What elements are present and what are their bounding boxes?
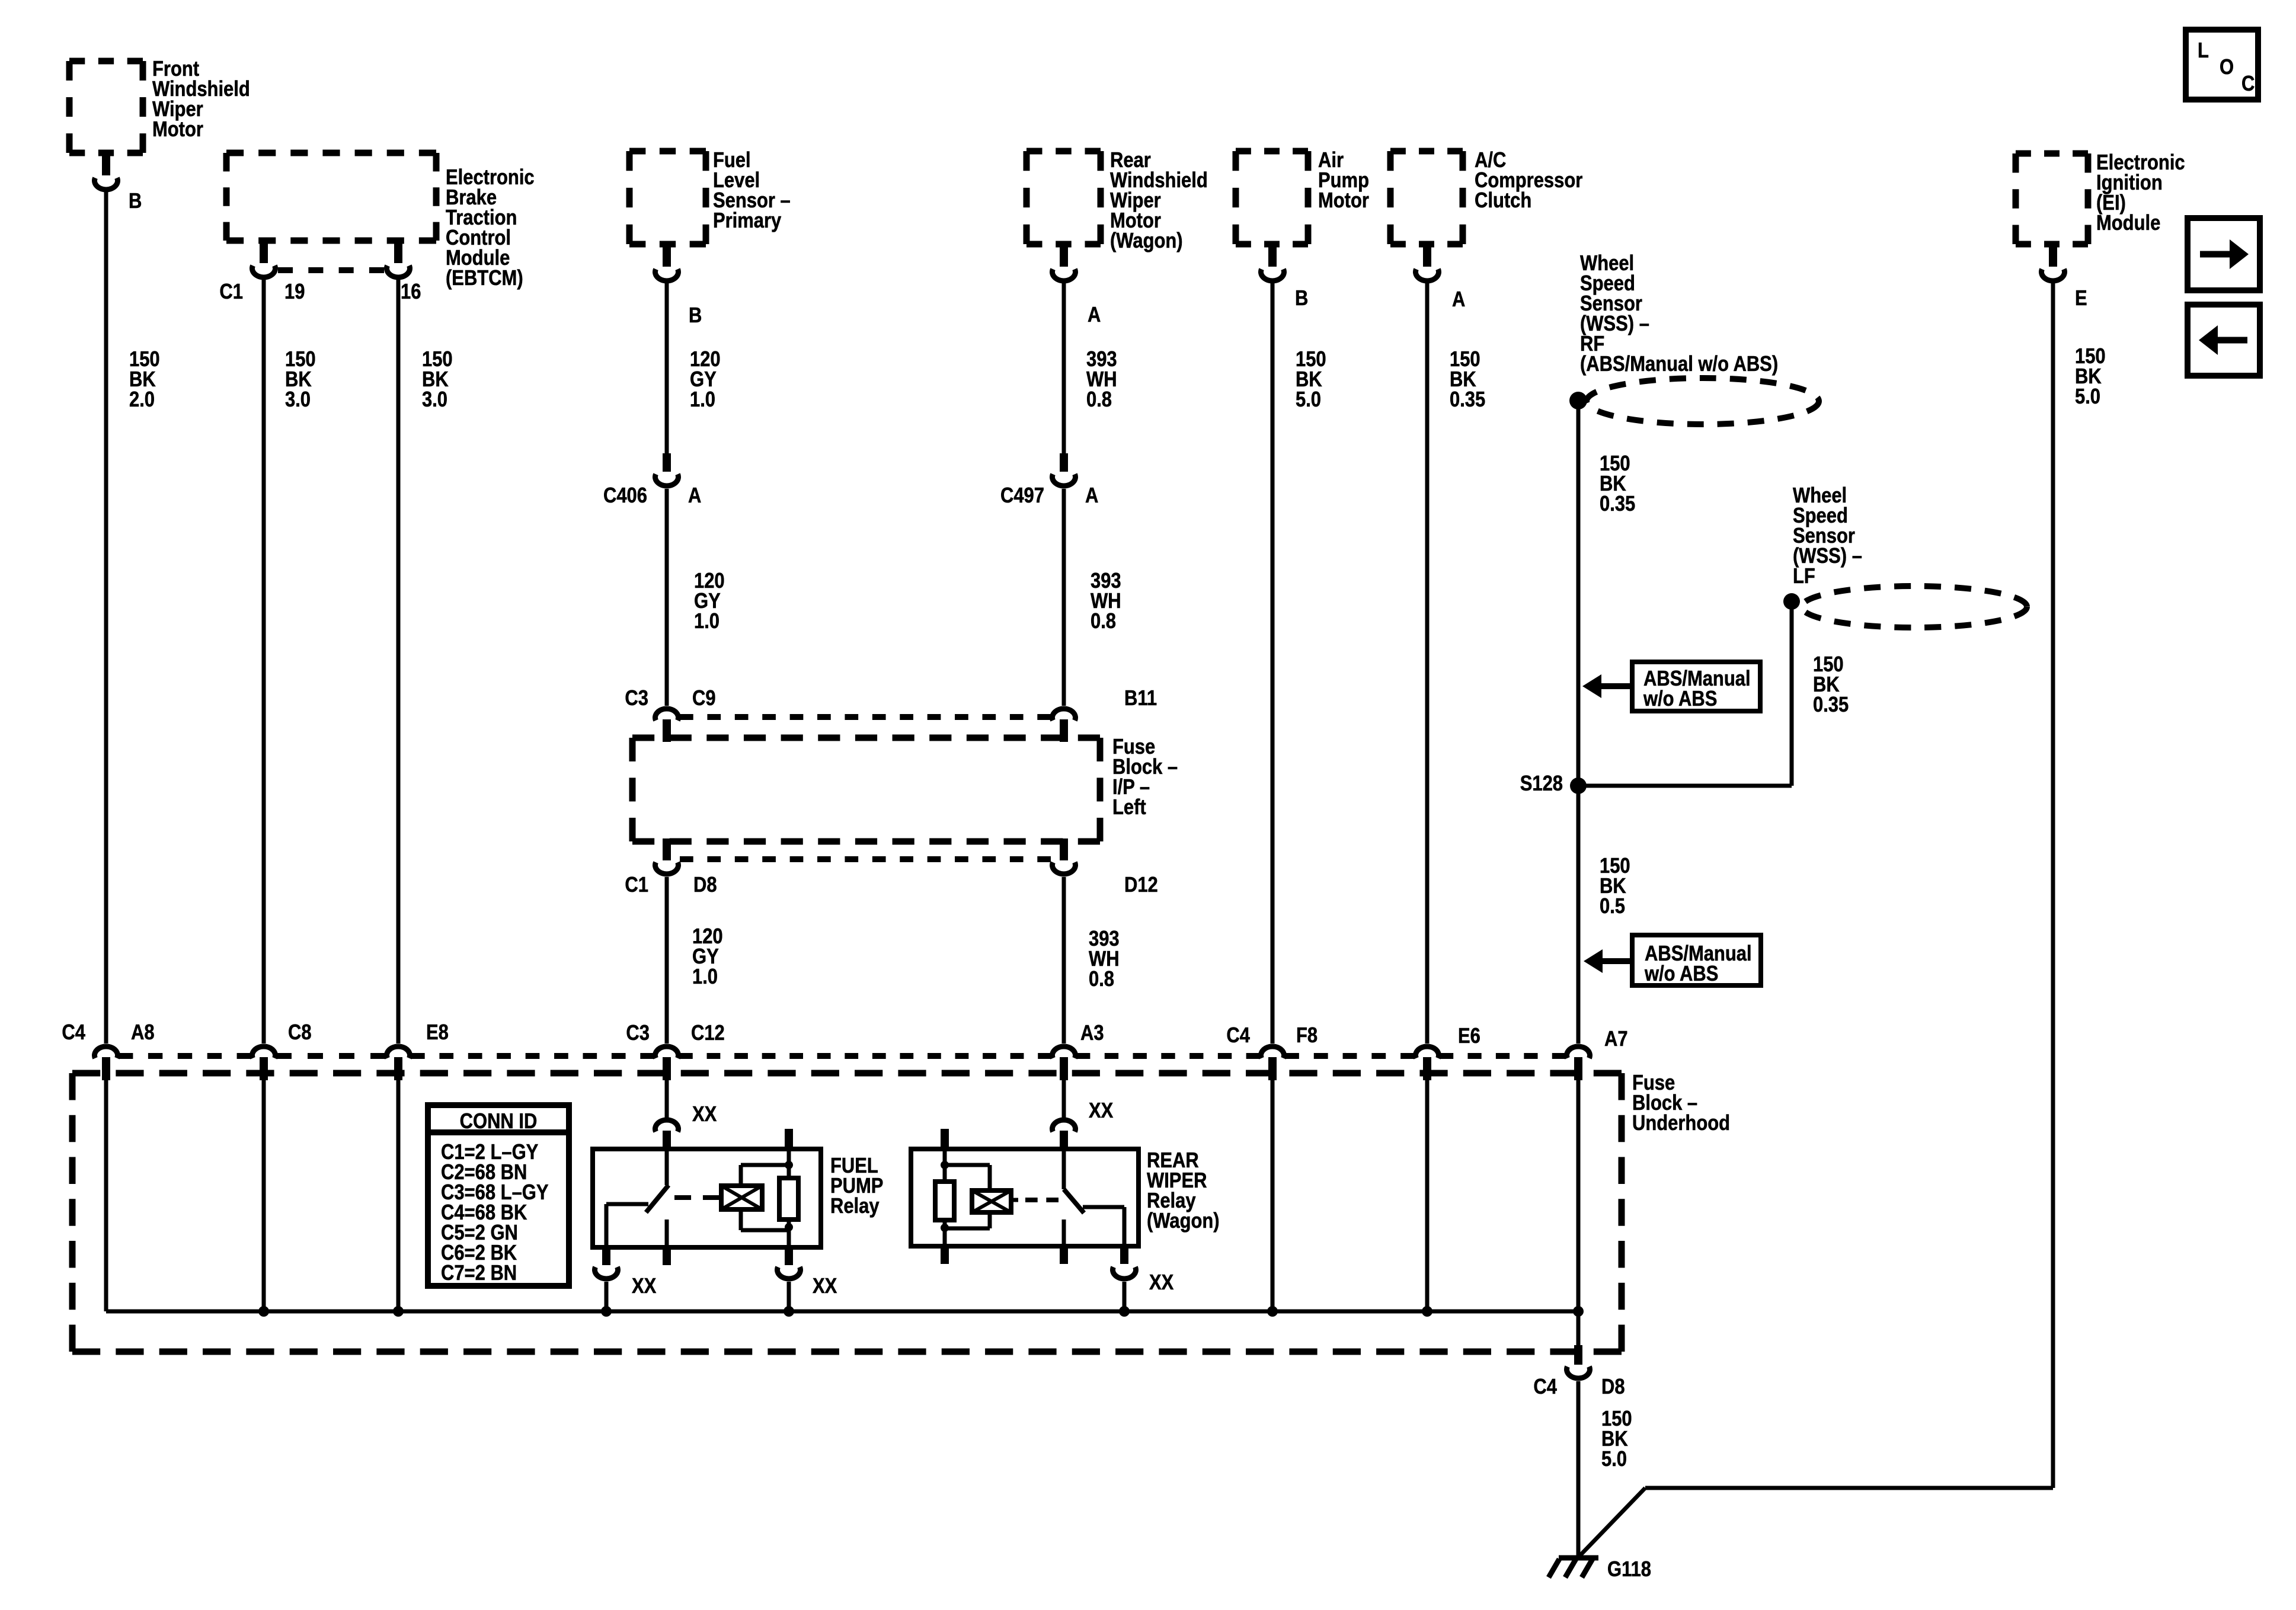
svg-text:C4: C4 (62, 1021, 85, 1045)
wire: EBTCM pin 16 down to fuse block (150 BK 3.0) (396, 278, 401, 1044)
svg-text:D12: D12 (1124, 873, 1158, 897)
svg-text:Motor: Motor (152, 118, 203, 142)
svg-text:0.5: 0.5 (1600, 895, 1625, 918)
underhood fuse block bottom connector C4/D8 (1574, 1345, 1582, 1365)
fuel pump relay bottom-middle stub pin (663, 1247, 671, 1265)
wire: Air Pump Motor B down to fuse block (150 BK 5.0) (1271, 281, 1275, 1044)
ground bus inside fuse block (106, 1310, 1578, 1314)
svg-text:w/o ABS: w/o ABS (1644, 962, 1718, 986)
dashed connector tie line across fuse block underhood top (119, 1053, 251, 1059)
svg-text:5.0: 5.0 (1601, 1448, 1627, 1471)
svg-text:C3: C3 (625, 687, 648, 710)
underhood fuse block top connector at x=445 (252, 1046, 276, 1058)
rear wiper relay coil stub and actuation dashed link (1011, 1198, 1018, 1202)
connector B11 at top of Fuse Block I/P (1053, 709, 1076, 721)
svg-text:C1: C1 (625, 873, 648, 897)
junction dot on bus at air pump col (1267, 1306, 1278, 1317)
svg-text:E: E (2075, 287, 2087, 311)
svg-text:Clutch: Clutch (1475, 189, 1531, 213)
wire: C497 to fuse block I/P B11 (393 WH 0.8) (1062, 489, 1066, 706)
svg-text:0.8: 0.8 (1091, 610, 1116, 633)
svg-text:Primary: Primary (713, 209, 782, 233)
wire: fuse block I/P D12 down to underhood fuse block (393 WH 0.8) (1062, 877, 1066, 1044)
svg-text:0.8: 0.8 (1086, 388, 1112, 412)
wire: A7 column drop through bus to D8 exit (1576, 1080, 1581, 1347)
svg-text:(ABS/Manual w/o ABS): (ABS/Manual w/o ABS) (1580, 353, 1778, 376)
fuel pump relay actuation dashed link (674, 1195, 720, 1200)
svg-text:XX: XX (692, 1103, 717, 1126)
junction dot on bus at col2 (258, 1306, 269, 1317)
svg-text:F8: F8 (1296, 1024, 1318, 1048)
connector pin B of Front Windshield Wiper Motor (102, 153, 110, 175)
svg-text:A: A (1085, 484, 1098, 508)
component box: A/C Compressor Clutch (1390, 148, 1463, 155)
svg-text:A3: A3 (1080, 1022, 1104, 1045)
rear wiper relay coil loop wiring (945, 1163, 990, 1167)
svg-text:0.35: 0.35 (1600, 492, 1635, 516)
svg-text:Module: Module (2096, 212, 2160, 235)
box: Fuse Block - I/P - Left (632, 735, 1100, 741)
connector C1/D8 at bottom of Fuse Block I/P (663, 838, 671, 860)
connector pin A of Rear Wiper Motor (1060, 244, 1068, 267)
svg-text:1.0: 1.0 (692, 965, 718, 989)
connector D12 at bottom of Fuse Block I/P (1060, 838, 1068, 860)
connector pin C1-19 of EBTCM (260, 241, 268, 263)
wire: col2 drop inside fuse block to ground bus (262, 1080, 266, 1311)
svg-text:C1: C1 (219, 280, 243, 304)
wire: air pump col drop inside fuse block to ground bus (1271, 1080, 1275, 1311)
component box: Rear Windshield Wiper Motor (Wagon) (1027, 148, 1101, 155)
in-line connector C406 pin A (663, 453, 671, 472)
dashed connector tie line D8-D12 (680, 856, 1051, 862)
fuel pump relay bottom-right pin to ground bus (785, 1247, 793, 1265)
wire: C406 to fuse block I/P C9 (120 GY 1.0) (665, 489, 669, 706)
svg-text:3.0: 3.0 (422, 388, 447, 412)
right-arrow legend box (2188, 218, 2260, 290)
svg-text:1.0: 1.0 (690, 388, 715, 412)
connector C3/C9 at top of Fuse Block I/P (655, 709, 679, 721)
svg-text:0.35: 0.35 (1813, 693, 1849, 717)
svg-text:3.0: 3.0 (285, 388, 311, 412)
svg-text:A: A (1088, 303, 1101, 327)
svg-text:C9: C9 (692, 687, 716, 710)
fuel pump relay coil (box with X) (721, 1186, 762, 1209)
svg-text:O: O (2220, 56, 2234, 79)
relay box: REAR WIPER Relay (Wagon) (911, 1149, 1139, 1246)
svg-text:S128: S128 (1520, 772, 1563, 796)
svg-text:E8: E8 (426, 1021, 449, 1045)
svg-text:C4: C4 (1533, 1375, 1557, 1399)
svg-text:Motor: Motor (1318, 189, 1369, 213)
fuel pump relay switch input lead (665, 1149, 669, 1185)
ground symbol G118 (1559, 1555, 1598, 1561)
component box: Electronic Brake Traction Control Module (EBTCM) (226, 150, 436, 156)
wire: A/C Compressor Clutch A down to fuse block (150 BK 0.35) (1425, 281, 1430, 1044)
wire: EI ground run horizontal (1645, 1486, 2053, 1490)
svg-text:XX: XX (1089, 1099, 1114, 1123)
svg-text:A8: A8 (131, 1021, 155, 1045)
wire: WSS RF down to fuse block A7 (150 BK 0.35) (1576, 401, 1581, 1044)
svg-text:2.0: 2.0 (129, 388, 155, 412)
fuel pump relay resistor branch (787, 1149, 791, 1180)
junction dot on bus at A7 column (1573, 1306, 1584, 1317)
rear wiper relay bottom-left stub pin (941, 1246, 949, 1264)
svg-text:A7: A7 (1604, 1028, 1628, 1051)
relay top connector XX (rear wiper relay, switch input) (1053, 1120, 1076, 1132)
wire: EI Module E down (150 BK 5.0) (2051, 281, 2055, 1488)
svg-text:16: 16 (401, 280, 421, 304)
fuel pump relay switch fixed contact stub (665, 1219, 669, 1247)
underhood fuse block top connector at x=2147 (1261, 1046, 1284, 1058)
relay top connector XX (fuel pump relay, switch input) (655, 1120, 679, 1132)
rear wiper relay switch input lead (1062, 1149, 1066, 1189)
wire: EBTCM pin 19 down to fuse block (150 BK 3.0) (262, 278, 266, 1044)
relay top stub pin (fuel pump relay coil feed) (785, 1129, 793, 1149)
svg-text:C8: C8 (288, 1021, 312, 1045)
left-arrow legend box (2188, 305, 2260, 376)
svg-text:C4: C4 (1226, 1024, 1250, 1048)
component box: Fuel Level Sensor - Primary (629, 148, 706, 155)
connector pin B of Air Pump Motor (1268, 244, 1277, 267)
fuel pump relay switch blade (646, 1185, 669, 1212)
svg-text:(Wagon): (Wagon) (1147, 1209, 1220, 1233)
svg-text:B11: B11 (1124, 687, 1157, 710)
connector pin 16 of EBTCM (394, 241, 402, 263)
svg-text:19: 19 (284, 280, 305, 304)
svg-text:E6: E6 (1458, 1025, 1480, 1048)
svg-text:C406: C406 (603, 484, 647, 508)
in-line connector C497 pin A (1060, 453, 1068, 472)
svg-text:C12: C12 (691, 1022, 725, 1045)
connector pin B of Fuel Level Sensor (663, 244, 671, 267)
svg-text:A: A (1452, 288, 1465, 312)
wire: Rear Wiper Motor A to C497 (393 WH 0.8) (1062, 281, 1066, 453)
svg-text:Left: Left (1112, 796, 1146, 820)
svg-text:C497: C497 (1000, 484, 1044, 508)
dashed ellipse WSS RF harness (1587, 378, 1819, 424)
rear wiper relay switch output lead to right pin (1083, 1205, 1124, 1209)
dashed connector tie line C9-B11 (680, 714, 1051, 720)
box: Fuse Block - Underhood (dashed border) (72, 1070, 1622, 1077)
relay box: FUEL PUMP Relay (593, 1149, 821, 1247)
svg-text:5.0: 5.0 (1296, 388, 1321, 412)
rear wiper relay switch blade (1064, 1189, 1084, 1213)
wire: A3 column into relay top connector (1062, 1080, 1066, 1118)
CONN ID legend table (428, 1105, 569, 1286)
svg-text:XX: XX (813, 1275, 837, 1298)
svg-text:D8: D8 (1601, 1375, 1625, 1399)
fuel pump relay coil loop wiring (741, 1163, 789, 1167)
connector pin E of EI Module (2049, 244, 2057, 267)
rear wiper relay top stub pin (coil feed) (941, 1129, 949, 1149)
splice node at WSS RF (1569, 392, 1587, 409)
svg-text:XX: XX (1149, 1271, 1174, 1295)
junction dot on bus at A/C col (1422, 1306, 1432, 1317)
svg-text:5.0: 5.0 (2075, 385, 2100, 409)
component box: Air Pump Motor (1236, 148, 1308, 155)
rear wiper relay switch fixed contact stub (1062, 1219, 1066, 1246)
svg-text:B: B (689, 304, 702, 328)
wire: S128 horizontal to WSS LF branch (1578, 784, 1792, 788)
splice S128 (1570, 777, 1587, 794)
arrow from upper ABS/Manual box to wire (1600, 683, 1632, 689)
svg-text:A: A (688, 484, 701, 508)
svg-text:Relay: Relay (830, 1195, 880, 1218)
svg-text:(Wagon): (Wagon) (1110, 229, 1183, 253)
svg-text:w/o ABS: w/o ABS (1643, 687, 1717, 711)
component box: Front Windshield Wiper Motor (69, 58, 143, 65)
svg-text:G118: G118 (1607, 1558, 1651, 1582)
rear wiper relay resistor branch (943, 1149, 947, 1182)
underhood fuse block top connector at x=179 (95, 1046, 118, 1058)
underhood fuse block top connector at x=672 (387, 1046, 410, 1058)
svg-text:XX: XX (632, 1275, 657, 1298)
svg-text:C3: C3 (626, 1022, 650, 1045)
splice node at WSS LF (1783, 593, 1800, 610)
wire: C12 column into relay top connector (665, 1080, 669, 1118)
svg-text:Underhood: Underhood (1632, 1112, 1730, 1135)
fuel pump relay bottom-left pin to ground bus (602, 1247, 610, 1265)
dashed connector tie line between EBTCM pins (278, 267, 384, 273)
fuel pump relay switch output lead to left pin (606, 1202, 648, 1206)
svg-text:0.35: 0.35 (1450, 388, 1485, 412)
svg-text:CONN ID: CONN ID (460, 1110, 538, 1134)
wire: Front Wiper Motor B down to fuse block (circuit 150 BK 2.0) (104, 190, 108, 1044)
underhood fuse block top connector at x=1795 (1053, 1046, 1076, 1058)
svg-text:C: C (2241, 72, 2255, 96)
connector pin A of A/C Compressor Clutch (1423, 244, 1431, 267)
svg-text:(EBTCM): (EBTCM) (446, 267, 523, 290)
wire: col1 drop inside fuse block to ground bus (104, 1080, 108, 1311)
arrow from lower ABS/Manual box to wire (1601, 958, 1632, 964)
wire: Fuel Level Sensor B to C406 (120 GY 1.0) (665, 281, 669, 453)
svg-text:0.8: 0.8 (1089, 968, 1114, 991)
junction dot on bus at col3 (393, 1306, 404, 1317)
svg-text:1.0: 1.0 (694, 610, 720, 633)
rear wiper relay bottom-middle stub pin (1060, 1246, 1068, 1264)
callout box ABS/Manual w/o ABS (lower) (1632, 935, 1761, 985)
rear wiper relay bottom-right pin to ground bus (1120, 1246, 1128, 1264)
underhood fuse block top connector at x=2408 (1416, 1046, 1439, 1058)
callout box ABS/Manual w/o ABS (upper) (1632, 662, 1760, 711)
LOC legend box (2186, 30, 2258, 100)
svg-text:D8: D8 (693, 873, 717, 897)
wire: EI ground run diagonal to G118 (1579, 1488, 1645, 1557)
wire: fuse block I/P D8 down to underhood fuse block (120 GY 1.0) (665, 877, 669, 1044)
svg-text:C7=2 BN: C7=2 BN (441, 1262, 517, 1285)
dashed ellipse WSS LF harness (1802, 586, 2027, 628)
component box: Electronic Ignition (EI) Module (2016, 151, 2088, 157)
underhood fuse block top connector at x=1125 (655, 1046, 679, 1058)
svg-text:L: L (2198, 39, 2209, 63)
svg-text:B: B (1295, 287, 1308, 311)
underhood fuse block top connector at x=2663 (1566, 1046, 1590, 1058)
svg-text:LF: LF (1793, 565, 1815, 588)
wire: WSS LF down to splice S128 (150 BK 0.35) (1790, 601, 1794, 786)
wire: col3 drop inside fuse block to ground bus (396, 1080, 401, 1311)
wire: D8 down to ground G118 (150 BK 5.0) (1576, 1381, 1581, 1558)
rear wiper relay coil (box with X) (972, 1190, 1011, 1212)
svg-text:B: B (129, 190, 142, 213)
wire: A/C col drop inside fuse block to ground bus (1425, 1080, 1430, 1311)
